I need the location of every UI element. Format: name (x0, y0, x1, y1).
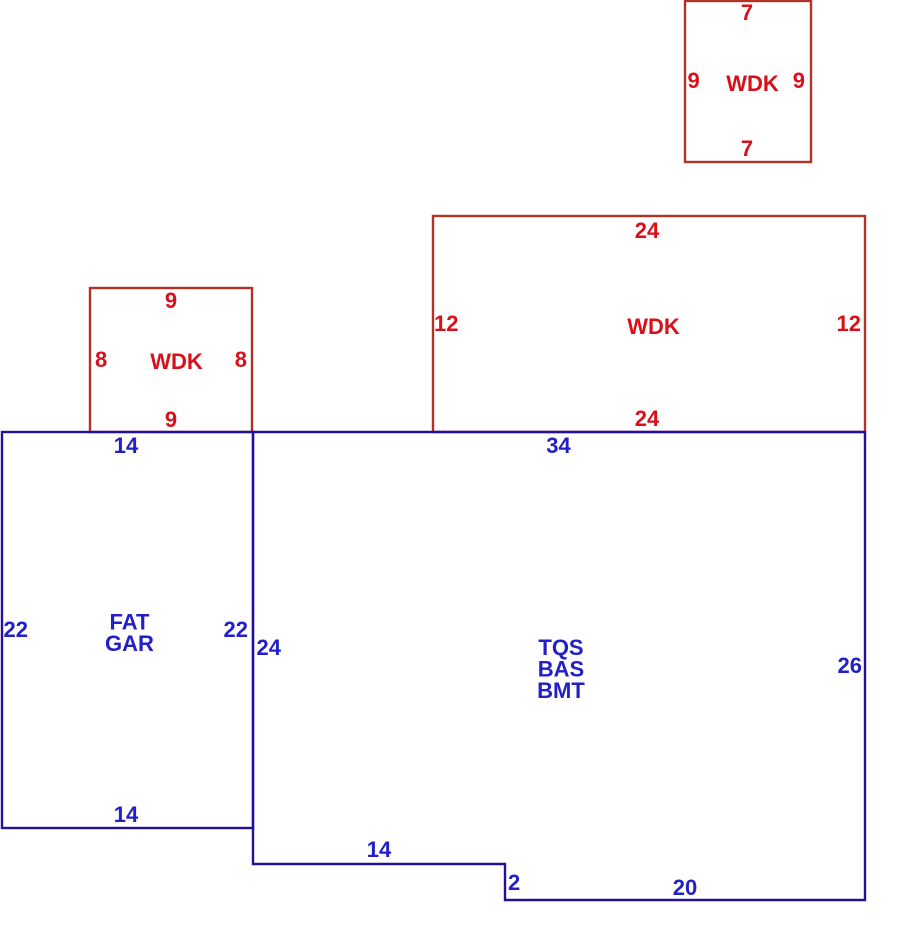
svg-text:2: 2 (508, 870, 520, 895)
svg-text:WDK: WDK (150, 349, 203, 374)
svg-text:24: 24 (635, 406, 660, 431)
svg-text:12: 12 (434, 311, 458, 336)
svg-text:7: 7 (741, 0, 753, 25)
room TQS BAS BMT outline polygon (253, 432, 865, 900)
svg-text:BMT: BMT (537, 678, 585, 703)
svg-text:WDK: WDK (726, 71, 779, 96)
svg-text:26: 26 (838, 653, 862, 678)
svg-text:20: 20 (673, 875, 697, 900)
svg-text:9: 9 (688, 68, 700, 93)
svg-text:12: 12 (837, 311, 861, 336)
svg-text:8: 8 (235, 347, 247, 372)
svg-text:22: 22 (4, 617, 28, 642)
room WDK (7x9) top-right outline (685, 1, 811, 162)
svg-text:14: 14 (114, 433, 139, 458)
svg-text:24: 24 (635, 218, 660, 243)
svg-text:8: 8 (95, 347, 107, 372)
svg-text:24: 24 (257, 635, 282, 660)
svg-text:9: 9 (793, 68, 805, 93)
svg-text:14: 14 (114, 802, 139, 827)
room WDK (9x8) left outline (90, 288, 252, 432)
svg-text:14: 14 (367, 837, 392, 862)
room WDK (24x12) middle outline (433, 216, 865, 432)
svg-text:9: 9 (165, 407, 177, 432)
svg-text:9: 9 (165, 288, 177, 313)
svg-text:34: 34 (546, 433, 571, 458)
svg-text:22: 22 (224, 617, 248, 642)
svg-text:GAR: GAR (105, 631, 154, 656)
room FAT GAR (14x22) outline (2, 432, 253, 828)
svg-text:WDK: WDK (627, 314, 680, 339)
svg-text:7: 7 (741, 136, 753, 161)
